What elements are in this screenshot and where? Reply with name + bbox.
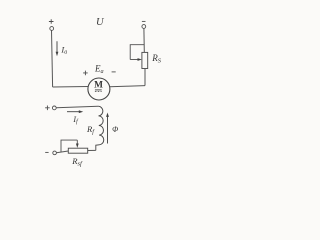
- terminal field +: [52, 106, 56, 110]
- arrow tap Rsf: [76, 140, 79, 148]
- arrow If (field current): [67, 110, 83, 113]
- node - (armature negative terminal label): [142, 20, 146, 22]
- svg-text:U: U: [96, 17, 105, 28]
- svg-text:RS: RS: [151, 53, 162, 65]
- wire field top horizontal: [56, 106, 98, 108]
- wire RS bottom down: [144, 69, 146, 86]
- svg-text:Φ: Φ: [112, 125, 118, 134]
- arrow Ia (armature current): [56, 41, 59, 56]
- svg-text:Rf: Rf: [86, 124, 95, 136]
- wire coil bottom jog down: [96, 145, 100, 151]
- wire bottom left horizontal to motor: [53, 86, 89, 89]
- wire from negative terminal down to RS: [143, 28, 145, 52]
- label - (armature EMF polarity): [112, 71, 116, 73]
- svg-text:Ia: Ia: [60, 45, 67, 56]
- node - (field negative terminal label): [45, 151, 48, 153]
- rheostat tap bracket Rsf: [61, 140, 77, 152]
- terminal armature +: [50, 27, 54, 31]
- wire coil to Rsf: [88, 149, 96, 151]
- svg-text:M: M: [94, 81, 103, 91]
- node + (armature positive terminal label): [49, 19, 54, 24]
- terminal field -: [53, 151, 57, 155]
- svg-text:Ea: Ea: [94, 64, 104, 75]
- wire field bottom horizontal: [56, 151, 68, 153]
- svg-text:Rsf: Rsf: [71, 156, 83, 168]
- label + (armature EMF polarity): [83, 71, 88, 76]
- svg-text:If: If: [72, 115, 79, 125]
- arrow flux phi: [106, 113, 109, 144]
- resistor RS: [142, 52, 148, 68]
- resistor Rsf: [68, 148, 87, 153]
- terminal armature -: [142, 25, 146, 29]
- wire left armature vertical: [52, 30, 53, 87]
- dc symbol under M: [95, 90, 102, 92]
- motor armature M: [88, 78, 110, 100]
- inductor Rf field winding coil: [98, 106, 104, 144]
- rheostat tap bracket RS: [130, 45, 144, 60]
- arrow tap RS: [130, 58, 142, 61]
- node + (field positive terminal label): [45, 106, 50, 111]
- wire bottom right horizontal to motor: [110, 86, 145, 87]
